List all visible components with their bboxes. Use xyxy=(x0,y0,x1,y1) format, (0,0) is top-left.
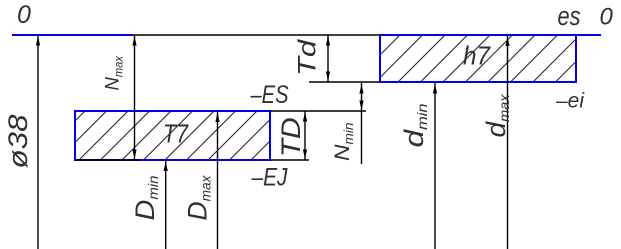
dimension line Nmax xyxy=(134,35,136,160)
extension line h7 bottom (Td) xyxy=(309,81,380,83)
tolerance zone h7 (shaft) rect xyxy=(380,35,576,82)
svg-text:T7: T7 xyxy=(163,119,189,149)
svg-text:TD: TD xyxy=(276,117,306,157)
svg-text:–ES: –ES xyxy=(250,81,289,109)
zero line (black middle segment) xyxy=(133,34,380,36)
dimension line Dmin xyxy=(165,160,167,249)
hatch of h7 xyxy=(329,34,604,84)
dimension line dmax xyxy=(507,35,509,249)
hatch of T7 xyxy=(13,109,303,162)
svg-text:es: es xyxy=(558,1,581,31)
black overlay on T7 bottom edge xyxy=(74,159,140,161)
extension line T7 bottom (TD) xyxy=(270,159,309,161)
svg-text:Td: Td xyxy=(294,39,322,76)
zero line (blue, right segment) xyxy=(576,34,601,36)
dimension line Nmin xyxy=(361,83,363,164)
svg-text:–ei: –ei xyxy=(555,90,585,113)
extension line T7 top (to Nmin) xyxy=(270,110,366,112)
svg-text:h7: h7 xyxy=(463,41,491,71)
svg-text:–EJ: –EJ xyxy=(251,164,288,192)
zero line (blue, left segment) xyxy=(12,34,133,36)
svg-text:0: 0 xyxy=(600,4,614,31)
dimension line dmin xyxy=(434,83,436,249)
tolerance zone T7 (hole) rect xyxy=(75,111,270,160)
dimension line Dmax xyxy=(217,111,219,249)
dimension line Td xyxy=(327,35,329,82)
svg-text:0: 0 xyxy=(17,1,31,29)
dimension line phi38 left xyxy=(37,35,39,249)
dimension line TD xyxy=(304,111,306,160)
svg-text:ø38: ø38 xyxy=(3,115,33,169)
